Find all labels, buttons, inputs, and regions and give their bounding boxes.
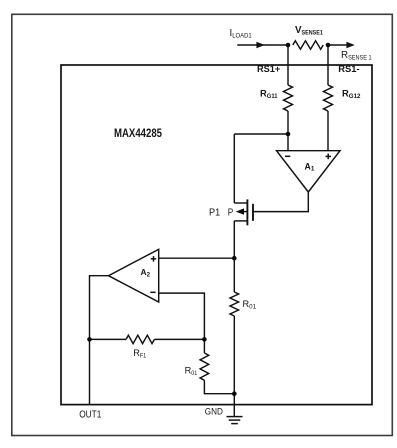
resistor VSENSE1 (sense resistor): [293, 41, 323, 49]
wire A2 minus input feedback: [159, 293, 205, 339]
node top right: [326, 43, 331, 48]
node A1 minus: [286, 132, 291, 137]
wire R01 bottom lead to gnd node: [204, 380, 234, 393]
wire RS1+ vertical upper: [287, 45, 289, 85]
wire ILOAD1 feed: [237, 44, 288, 46]
svg-text:RS1-: RS1-: [338, 63, 359, 74]
A2 plus sign: [151, 258, 156, 260]
source stub: [234, 220, 247, 222]
channel bar: [246, 199, 248, 225]
node feedback: [202, 337, 207, 342]
transistor P1 (PMOS pass element): [234, 199, 253, 225]
svg-text:P: P: [228, 207, 234, 218]
body arrow: [236, 208, 244, 214]
arrow ILOAD1: [256, 42, 264, 49]
resistor RG11: [284, 85, 293, 111]
wire gnd node to ground symbol: [233, 394, 235, 417]
A2 minus sign: [150, 291, 155, 293]
node source/A2 plus: [232, 256, 237, 261]
wire RF1 to node: [154, 338, 204, 340]
node top left: [286, 43, 291, 48]
svg-text:RS1+: RS1+: [257, 63, 281, 74]
A1 minus sign: [285, 155, 290, 157]
resistor RG12: [324, 85, 333, 111]
wire RS1+ vertical lower to A1 minus input: [287, 111, 289, 151]
op-amp A2: [109, 249, 159, 302]
gate bar: [252, 204, 254, 221]
ground: [227, 417, 243, 424]
wire RS1- vertical upper: [327, 45, 329, 85]
svg-text:MAX44285: MAX44285: [114, 126, 162, 140]
svg-text:GND: GND: [205, 407, 223, 417]
wire mosfet source down to node: [233, 221, 235, 258]
A1 plus sign: [326, 155, 332, 157]
wire A2 output: [90, 276, 109, 405]
op-amp A1: [277, 151, 341, 192]
wire A1 output to gate: [254, 192, 308, 212]
resistor R01 bottom: [200, 353, 209, 380]
svg-text:P1: P1: [209, 207, 220, 218]
wire node down to R01 bottom: [203, 339, 205, 353]
wire OUT node to RF1: [90, 338, 127, 340]
node OUT: [87, 337, 92, 342]
svg-text:OUT1: OUT1: [79, 409, 101, 420]
wire R01 right bottom to gnd node: [233, 316, 235, 394]
wire node A to mosfet drain horizontal: [234, 133, 288, 135]
resistor R01 right: [230, 292, 239, 316]
wire node down to R01 right top: [233, 258, 235, 292]
node gnd: [232, 391, 237, 396]
wire node to RSENSE arrow: [328, 44, 348, 46]
wire RS1- vertical lower to A1 plus input: [327, 111, 329, 151]
resistor RF1: [126, 335, 154, 343]
IC boundary box MAX44285: [61, 65, 372, 405]
wire node to A2 plus input: [159, 257, 235, 259]
arrow RSENSE1: [346, 42, 354, 49]
body line: [244, 211, 248, 213]
wire mosfet drain vertical: [233, 134, 235, 203]
drain stub: [234, 202, 247, 204]
